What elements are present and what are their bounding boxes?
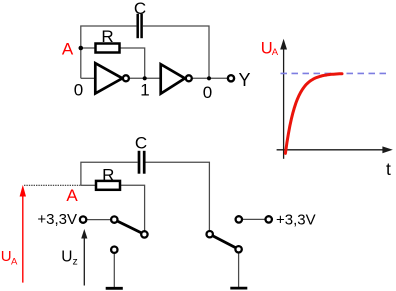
svg-text:0: 0 — [74, 81, 83, 100]
svg-text:A: A — [272, 47, 279, 58]
svg-text:t: t — [386, 159, 391, 179]
svg-text:z: z — [73, 256, 78, 268]
svg-text:0: 0 — [203, 83, 212, 102]
svg-text:A: A — [11, 256, 18, 267]
svg-text:U: U — [61, 249, 72, 266]
svg-text:A: A — [62, 39, 74, 58]
svg-text:+3,3V: +3,3V — [276, 211, 316, 228]
svg-text:Y: Y — [239, 70, 251, 90]
svg-text:R: R — [101, 27, 113, 46]
svg-text:R: R — [102, 165, 114, 184]
svg-text:C: C — [134, 0, 146, 18]
svg-text:A: A — [66, 186, 78, 205]
svg-text:+3,3V: +3,3V — [37, 211, 77, 228]
svg-text:C: C — [135, 134, 147, 153]
svg-text:1: 1 — [140, 81, 149, 100]
